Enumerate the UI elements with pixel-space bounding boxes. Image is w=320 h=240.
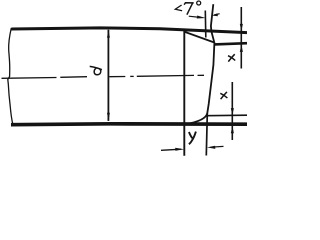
label degree sign	[197, 1, 201, 5]
angle dimension right arrow	[212, 13, 220, 16]
y dimension line right arrow	[207, 146, 224, 149]
end face line (skewed cut face with foot curve)	[186, 4, 214, 124]
extension line at face bottom (right extent of y)	[206, 113, 207, 155]
pipe bottom outline (extends right as extension line for x)	[11, 122, 247, 127]
extension line at bevel root (left extent of y)	[183, 31, 185, 156]
label x (upper)	[228, 54, 235, 61]
label x (lower)	[220, 92, 227, 99]
lower x dimension line with outside arrows	[231, 82, 234, 140]
label y	[189, 132, 196, 145]
label d (rotated italic d)	[90, 66, 102, 74]
label ≤ (less-or-equal sign)	[175, 5, 182, 11]
extension line from bevel root for upper x (horizontal)	[215, 43, 248, 44]
pipe top outline (extends right as extension line for x)	[11, 28, 247, 33]
extension line from face bottom for lower x (horizontal)	[207, 114, 247, 117]
y dimension line left arrow	[161, 148, 184, 151]
label 7 (angle value)	[184, 3, 194, 15]
upper x dimension line with outside arrows	[240, 7, 243, 69]
angle dimension left arrow	[189, 16, 206, 19]
bevel taper line (top of cut)	[185, 32, 215, 43]
extension line for angle (vertical reference)	[204, 11, 207, 38]
centerline (dash-dot axis)	[2, 75, 205, 78]
d dimension line with outward arrows	[107, 29, 110, 121]
break line (left wavy edge)	[8, 28, 13, 125]
